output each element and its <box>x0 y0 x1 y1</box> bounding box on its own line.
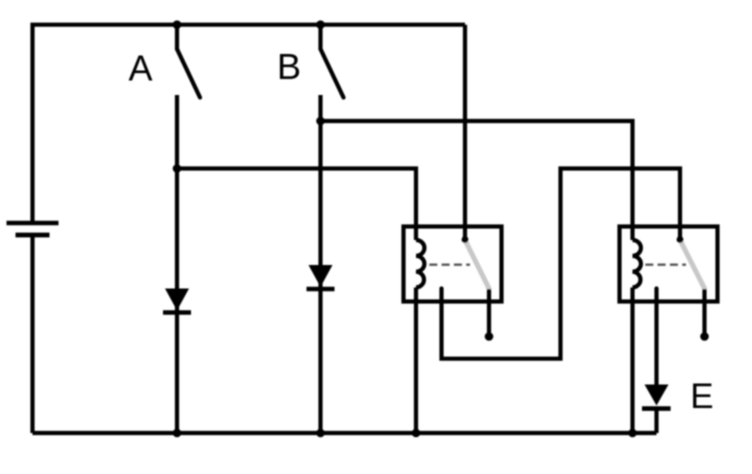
wire battery negative to bottom rail <box>30 235 34 433</box>
node bottom rail at B column <box>316 429 325 438</box>
node relay K2 open terminal <box>700 332 709 341</box>
node B-column junction with wire to relay K2 coil <box>316 117 325 126</box>
wire relay K1 armature loop up to relay K2 blade pivot <box>442 169 681 359</box>
battery BT1 <box>7 223 59 235</box>
relay K1 box <box>404 227 502 302</box>
node relay K1 open terminal <box>485 332 494 341</box>
diode D1 <box>163 289 191 313</box>
wire bottom rail <box>33 431 657 435</box>
relay K1 blade <box>466 241 490 289</box>
node switch B top junction <box>316 20 325 29</box>
relay K2 coil <box>633 240 641 288</box>
relay K1 blade pivot <box>462 236 469 243</box>
wire top-right down to relay K1 blade pivot <box>463 25 467 238</box>
wire middle horizontal to relay K1 coil <box>177 169 416 241</box>
node bottom rail at A column <box>173 429 182 438</box>
diode D2 <box>307 265 335 289</box>
node bottom rail at K1 coil <box>412 429 421 438</box>
wire switch B bottom terminal to bottom rail <box>318 95 322 433</box>
wire diode E to bottom rail corner <box>654 408 658 433</box>
relay K2 blade pivot <box>677 236 684 243</box>
relay K2 dashed link <box>645 264 686 266</box>
wire switch A bottom terminal to bottom rail <box>175 95 179 433</box>
relay K2 blade <box>681 241 705 289</box>
relay K1 dashed link <box>429 264 470 266</box>
svg-text:B: B <box>277 46 301 87</box>
wire battery positive to top-left corner <box>33 25 466 221</box>
wire relay K1 coil to bottom rail <box>414 288 418 434</box>
wire relay K2 normally-open contact stub <box>702 289 706 333</box>
wire relay K2 coil to bottom rail <box>630 288 634 434</box>
wire relay K1 normally-open contact stub <box>487 289 491 333</box>
node bottom rail at K2 coil <box>628 429 637 438</box>
diode E <box>642 385 671 409</box>
switch B <box>321 25 344 98</box>
wire from B column to relay K2 coil <box>321 121 633 240</box>
relay K1 coil <box>416 240 424 288</box>
node A-column junction with middle wire <box>173 164 182 173</box>
relay K2 box <box>620 227 718 302</box>
switch A <box>177 25 200 98</box>
svg-text:E: E <box>690 377 713 416</box>
node switch A top junction <box>173 20 182 29</box>
svg-text:A: A <box>129 48 153 89</box>
wire relay K2 armature down to diode E <box>654 289 658 387</box>
